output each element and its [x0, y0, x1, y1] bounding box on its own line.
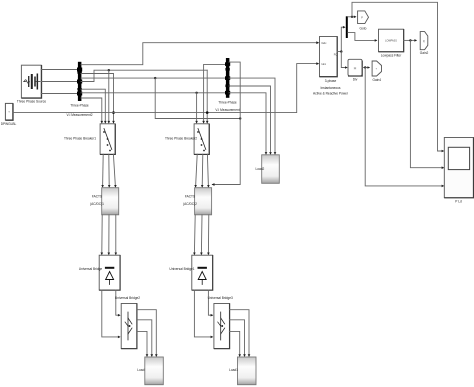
three-phase source block	[21, 65, 41, 98]
load1 block	[145, 357, 164, 385]
wire bus1 to breaker1 pin4	[81, 74, 114, 123]
svg-text:Goto: Goto	[360, 26, 367, 30]
wire source B to bus1	[41, 81, 78, 83]
wire breaker2 pin1 drop	[196, 93, 198, 123]
wire PQ output to demux and div	[337, 27, 345, 51]
wire igbt2 out1 to load2 pin3	[229, 310, 249, 356]
svg-text:Gain4: Gain4	[373, 78, 382, 82]
universal bridge2 (diode)	[192, 255, 213, 290]
svg-text:Div: Div	[353, 78, 358, 82]
bus bar 1 (Three-Phase V-I Measurement2)	[77, 62, 82, 101]
svg-text:Three Phase Breaker1: Three Phase Breaker1	[64, 137, 96, 141]
svg-text:Lowpass Filter: Lowpass Filter	[381, 53, 402, 57]
svg-text:V-I Measurement2: V-I Measurement2	[66, 113, 92, 117]
wire bus1 to breaker1 pin2	[81, 89, 105, 122]
div block	[348, 59, 362, 76]
svg-text:Active & Reactive Power: Active & Reactive Power	[313, 92, 349, 96]
junction pin4 on long wire	[112, 111, 115, 114]
svg-text:Gain2: Gain2	[420, 51, 429, 55]
FACTS1 block	[102, 188, 119, 215]
wire igbt2 out2 to load2 pin2	[229, 320, 244, 356]
wire breaker2 to FACTS2 pins	[196, 154, 209, 186]
svg-text:Universal Bridge: Universal Bridge	[79, 267, 103, 271]
svg-text:(AC/DC)1: (AC/DC)1	[90, 202, 104, 206]
svg-text:V-I Measurement: V-I Measurement	[215, 108, 239, 112]
goto2 tag	[372, 61, 381, 76]
wire bus1 to breaker1 pin1	[81, 98, 102, 123]
svg-text:Universal Bridge3: Universal Bridge3	[208, 296, 233, 300]
goto tag (P)	[358, 11, 369, 24]
load3 block (three-phase load at middle)	[262, 155, 280, 184]
junction at 240.2,118.5	[239, 117, 241, 119]
wire igbt1 out2 to load1 pin2	[137, 320, 152, 356]
three phase breaker1	[100, 124, 115, 155]
wire div out to Goto2 tag	[362, 67, 369, 69]
svg-text:P Ld: P Ld	[455, 200, 462, 204]
svg-text:Q: Q	[423, 40, 425, 43]
wire bridge2 minus to igbt2 port2	[194, 290, 212, 337]
wire bus1 to Vabc (up and across)	[81, 43, 318, 65]
svg-text:Load1: Load1	[229, 368, 238, 372]
svg-text:Iabc: Iabc	[322, 63, 327, 66]
wire P up across top and down right side to scope	[352, 2, 443, 151]
wire div junction down to scope input3	[365, 68, 443, 186]
wire igbt2 out3 to load2 pin1	[229, 331, 239, 355]
igbt2 block (Universal Bridge3)	[214, 304, 230, 349]
svg-text:(AC/DC)2: (AC/DC)2	[183, 202, 197, 206]
three phase breaker2	[194, 124, 209, 155]
wire bus2 to load3 pin1	[229, 93, 266, 154]
svg-text:Three-Phase: Three-Phase	[218, 100, 237, 104]
svg-text:|u|: |u|	[354, 67, 357, 70]
wire bus1 to bus2 (phase at 78.1)	[81, 77, 226, 79]
wire bus2 tap to FACTS2 right port	[213, 62, 241, 184]
long wire from powergui block to Iabc	[13, 64, 318, 113]
wire igbt1 out3 to load1 pin1	[137, 331, 147, 355]
wire bus1 to bus2 (phase at 92.8)	[81, 92, 226, 94]
universal bridge1 (diode)	[99, 255, 120, 290]
wire PQ junction down to Div input	[341, 52, 346, 68]
wire source A to bus1	[41, 69, 78, 71]
svg-text:Instantaneous: Instantaneous	[320, 86, 340, 90]
svg-text:Three-Phase: Three-Phase	[70, 103, 89, 107]
wire drop x=155.2 to 118.5 then right	[155, 78, 240, 118]
wire demux Q out to lowpass filter	[348, 33, 377, 41]
svg-text:FACTS: FACTS	[92, 194, 102, 198]
svg-text:Universal Bridge1: Universal Bridge1	[169, 267, 194, 271]
wire FACTS1 to bridge1 pins	[102, 215, 116, 254]
wire phase jog bus1 to line 70.2	[81, 70, 207, 81]
svg-text:Three Phase Source: Three Phase Source	[17, 99, 46, 103]
3-phase instantaneous active & reactive power block	[320, 37, 338, 77]
wire bridge2 plus to igbt2 port1	[208, 290, 212, 315]
powergui-type block	[5, 103, 13, 120]
wire breaker2 pin3 rise to bus2	[204, 64, 227, 122]
load2 block	[238, 357, 257, 385]
svg-text:Three Phase Breaker2: Three Phase Breaker2	[165, 137, 197, 141]
junction on 78.1 for drop wire	[154, 77, 156, 79]
svg-text:3-phase: 3-phase	[325, 79, 337, 83]
scope block (P Load)	[444, 138, 473, 198]
wire breaker2 pin4 drop	[206, 70, 208, 122]
wire bridge1 minus to igbt1 port2	[102, 290, 120, 337]
wire demux P out to Goto and top route	[348, 16, 356, 18]
wire bus2 to load3 pin2	[229, 86, 271, 154]
igbt1 block (Universal Bridge2)	[121, 304, 137, 349]
FACTS2 block	[195, 188, 212, 215]
wire breaker1 to FACTS1 pins	[103, 154, 116, 186]
gain2 tag	[420, 32, 428, 50]
wire breaker1 pin3 drop	[108, 70, 110, 122]
svg-text:Vabc: Vabc	[321, 42, 327, 45]
wire bus2 to load3 pin3	[229, 78, 275, 154]
svg-text:Load2: Load2	[255, 167, 264, 171]
wire lowpass out to Gain2 tag	[404, 39, 417, 41]
wire lowpass junction down to scope input2	[410, 40, 443, 167]
svg-text:Load: Load	[137, 368, 144, 372]
wire bridge1 plus to igbt1 port1	[116, 290, 120, 315]
junction breaker2 pin4 on long wire	[206, 111, 209, 114]
junction breaker2 pin1	[195, 92, 197, 94]
bus bar 2 (Three-Phase V-I Measurement)	[225, 58, 230, 98]
svg-text:Universal Bridge2: Universal Bridge2	[115, 296, 140, 300]
demux	[346, 16, 348, 38]
wire source C to bus1	[41, 93, 78, 95]
svg-text:DPWGLBL: DPWGLBL	[1, 122, 17, 126]
wire igbt1 out1 to load1 pin3	[137, 310, 157, 356]
lowpass filter block	[379, 29, 404, 52]
svg-text:PQ: PQ	[334, 54, 338, 57]
svg-text:LOWPASS: LOWPASS	[385, 40, 397, 43]
wire FACTS2 to bridge2 pins	[194, 215, 208, 254]
svg-text:FACTS: FACTS	[185, 194, 195, 198]
junction breaker1 pin3	[108, 69, 110, 71]
